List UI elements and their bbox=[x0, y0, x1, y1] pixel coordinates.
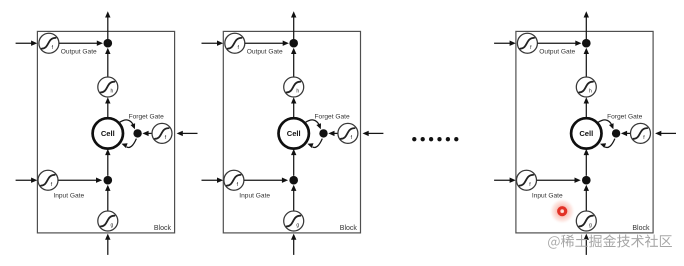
block B3 boundary bbox=[516, 31, 653, 233]
wire: forget gate to forget product B1 bbox=[142, 131, 152, 136]
wire: cell to h unit B3 bbox=[584, 97, 589, 118]
svg-text:Cell: Cell bbox=[101, 129, 115, 138]
wire: block output arrow (top) B2 bbox=[291, 11, 296, 43]
svg-text:Forget Gate: Forget Gate bbox=[129, 113, 165, 120]
input squashing unit g B2 bbox=[284, 211, 304, 231]
wire: external input into output gate B3 bbox=[494, 41, 516, 46]
wire: input product up into cell B3 bbox=[584, 149, 589, 176]
wire: external input into forget gate B1 bbox=[177, 131, 198, 136]
wire: external input into input gate B2 bbox=[202, 178, 224, 183]
input gate sigmoid unit B1 bbox=[38, 170, 58, 190]
output gate sigmoid unit B1 bbox=[39, 33, 59, 53]
marker: red highlight ring near input gate B3 bbox=[549, 198, 575, 224]
wire: block output arrow (top) B3 bbox=[584, 11, 589, 43]
svg-text:Input Gate: Input Gate bbox=[239, 192, 270, 199]
wire: h unit to output product B2 bbox=[291, 48, 296, 77]
wire: external input arrow (bottom) B3 bbox=[584, 234, 589, 255]
forget gate sigmoid unit B3 bbox=[631, 123, 651, 143]
node: forget product (multiply) B3 bbox=[612, 129, 620, 137]
forget gate sigmoid unit B1 bbox=[152, 123, 172, 143]
output squashing unit h B1 bbox=[98, 77, 118, 97]
svg-text:Output Gate: Output Gate bbox=[539, 48, 575, 55]
wire: g unit to input product B2 bbox=[291, 185, 296, 211]
memory cell B3 bbox=[571, 118, 601, 148]
memory cell B2 bbox=[279, 118, 309, 148]
wire: cell to h unit B1 bbox=[105, 97, 110, 118]
output gate sigmoid unit B2 bbox=[225, 33, 245, 53]
wire: g unit to input product B1 bbox=[105, 185, 110, 211]
node: output product (multiply) B3 bbox=[582, 39, 591, 48]
svg-text:Block: Block bbox=[154, 225, 172, 232]
wire: forget gate to forget product B2 bbox=[328, 131, 338, 136]
svg-text:h: h bbox=[296, 89, 299, 95]
svg-text:Block: Block bbox=[632, 225, 650, 232]
wire: output gate to product node B1 bbox=[59, 41, 103, 46]
wire: cell state out to forget product (upper loop arc) B3 bbox=[598, 120, 614, 129]
wire: external input arrow (bottom) B2 bbox=[291, 234, 296, 255]
node: output product (multiply) B2 bbox=[289, 39, 298, 48]
svg-text:Input Gate: Input Gate bbox=[532, 192, 563, 199]
svg-text:g: g bbox=[589, 223, 592, 229]
wire: output gate to product node B3 bbox=[538, 41, 582, 46]
wire: cell state out to forget product (upper loop arc) B2 bbox=[305, 120, 321, 129]
input gate sigmoid unit B3 bbox=[517, 170, 537, 190]
svg-text:Forget Gate: Forget Gate bbox=[607, 113, 643, 120]
svg-text:Input Gate: Input Gate bbox=[53, 192, 84, 199]
wire: external input into forget gate B2 bbox=[363, 131, 384, 136]
svg-text:g: g bbox=[296, 223, 299, 229]
output squashing unit h B3 bbox=[576, 77, 596, 97]
wire: h unit to output product B3 bbox=[584, 48, 589, 77]
wire: forget product back into cell (lower loop arc) B1 bbox=[122, 139, 137, 148]
wire: output gate to product node B2 bbox=[245, 41, 289, 46]
input gate sigmoid unit B2 bbox=[224, 170, 244, 190]
svg-text:Forget Gate: Forget Gate bbox=[315, 113, 351, 120]
input squashing unit g B3 bbox=[576, 211, 596, 231]
wire: input gate to input product B3 bbox=[537, 178, 581, 183]
wire: input gate to input product B1 bbox=[58, 178, 102, 183]
svg-text:Cell: Cell bbox=[579, 129, 593, 138]
svg-text:Block: Block bbox=[340, 225, 358, 232]
wire: input product up into cell B1 bbox=[105, 149, 110, 176]
wire: forget product back into cell (lower loop arc) B2 bbox=[307, 139, 322, 148]
node: input product (multiply) B1 bbox=[104, 176, 113, 185]
wire: external input into input gate B1 bbox=[16, 178, 38, 183]
wire: forget gate to forget product B3 bbox=[621, 131, 631, 136]
svg-text:g: g bbox=[111, 223, 114, 229]
svg-text:Output Gate: Output Gate bbox=[247, 48, 283, 55]
node: input product (multiply) B3 bbox=[582, 176, 591, 185]
wire: g unit to input product B3 bbox=[584, 185, 589, 211]
svg-text:Output Gate: Output Gate bbox=[61, 48, 97, 55]
wire: external input into forget gate B3 bbox=[655, 131, 676, 136]
watermark bbox=[548, 234, 672, 248]
block B1 boundary bbox=[37, 31, 174, 233]
node: forget product (multiply) B1 bbox=[133, 129, 141, 137]
node: forget product (multiply) B2 bbox=[319, 129, 327, 137]
wire: h unit to output product B1 bbox=[105, 48, 110, 77]
wire: external input into input gate B3 bbox=[494, 178, 516, 183]
svg-text:Cell: Cell bbox=[287, 129, 301, 138]
wire: block output arrow (top) B1 bbox=[105, 11, 110, 43]
node: output product (multiply) B1 bbox=[104, 39, 113, 48]
wire: external input arrow (bottom) B1 bbox=[105, 234, 110, 255]
ellipsis: continuation dots between blocks bbox=[412, 137, 458, 141]
forget gate sigmoid unit B2 bbox=[338, 123, 358, 143]
wire: cell state out to forget product (upper loop arc) B1 bbox=[119, 120, 135, 129]
wire: input gate to input product B2 bbox=[244, 178, 288, 183]
wire: external input into output gate B1 bbox=[16, 41, 38, 46]
wire: forget product back into cell (lower loop arc) B3 bbox=[600, 139, 615, 148]
wire: cell to h unit B2 bbox=[291, 97, 296, 118]
node: input product (multiply) B2 bbox=[289, 176, 298, 185]
input squashing unit g B1 bbox=[98, 211, 118, 231]
wire: input product up into cell B2 bbox=[291, 149, 296, 176]
output squashing unit h B2 bbox=[284, 77, 304, 97]
svg-text:h: h bbox=[589, 89, 592, 95]
block B2 boundary bbox=[223, 31, 360, 233]
output gate sigmoid unit B3 bbox=[517, 33, 537, 53]
svg-text:h: h bbox=[111, 89, 114, 95]
wire: external input into output gate B2 bbox=[202, 41, 224, 46]
memory cell B1 bbox=[93, 118, 123, 148]
